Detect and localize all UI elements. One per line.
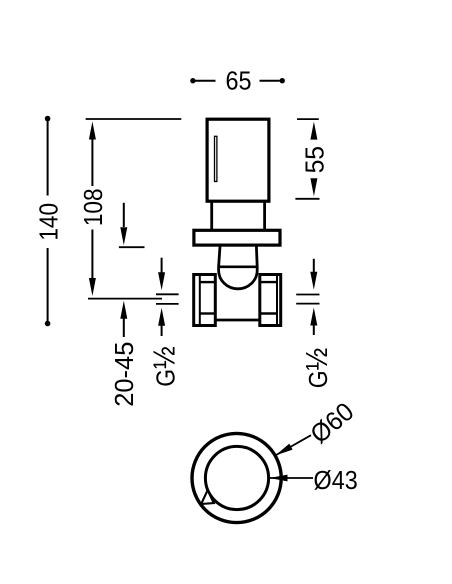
- dimension 20-45 lower line: [123, 318, 125, 337]
- right fitting inner vertical line: [276, 275, 278, 326]
- neck right line: [263, 201, 266, 230]
- dimension 20-45 up arrowhead: [120, 301, 127, 319]
- dimension 140 text: [35, 203, 64, 241]
- svg-text:55: 55: [301, 146, 330, 173]
- left fitting inner vertical line: [199, 275, 201, 326]
- right fitting outer rect: [260, 275, 281, 326]
- dimension G1/2 left lower line: [161, 325, 163, 336]
- dimension 20-45 tick (flange face): [119, 246, 145, 248]
- dimension 108 upper line: [91, 138, 93, 186]
- dimension 140 lower line: [47, 248, 49, 324]
- dimension 55 text: [301, 146, 330, 173]
- dimension 65 right dot: [280, 78, 285, 83]
- dimension 55 bottom extension line: [295, 198, 319, 200]
- dimension 108 text: [79, 188, 108, 226]
- dimension G1/2 right down arrowhead: [310, 272, 317, 290]
- dimension 140 upper line: [47, 119, 49, 196]
- svg-text:65: 65: [225, 67, 251, 95]
- dimension G1/2 left text: [148, 346, 182, 387]
- dimension G1/2 left top tick: [156, 293, 179, 295]
- svg-text:Ø43: Ø43: [314, 467, 358, 495]
- dimension 140 top dot: [45, 116, 51, 122]
- indicator triangle: [201, 490, 214, 504]
- dimension G1/2 left up arrowhead: [158, 308, 165, 326]
- leader line for diameter 60: [275, 435, 311, 455]
- left fitting upper inner line: [200, 281, 216, 283]
- neck left line: [210, 201, 213, 230]
- diameter 43 text: [314, 467, 358, 495]
- leader arrowhead for diameter 60: [275, 444, 292, 456]
- dimension 108 bottom arrowhead: [89, 278, 96, 296]
- dimension G1/2 right upper line: [313, 259, 315, 274]
- flange: [194, 230, 280, 245]
- dimension G1/2 left bottom tick: [156, 303, 179, 305]
- dimension 20-45 down arrowhead: [120, 227, 127, 245]
- dimension 108 top extension line: [86, 118, 182, 120]
- inner circle (bottom view): [205, 446, 268, 509]
- svg-text:20-45: 20-45: [111, 342, 139, 407]
- svg-text:108: 108: [79, 188, 108, 226]
- dimension 55 down arrowhead: [310, 178, 317, 196]
- dimension 20-45 text: [111, 342, 139, 407]
- valve body trapezoid and dome outline: [219, 246, 258, 288]
- dimension G1/2 left down arrowhead: [158, 272, 165, 290]
- dimension G1/2 left upper line: [161, 258, 163, 274]
- right fitting lower inner line: [260, 312, 277, 314]
- dimension G1/2 right bottom tick: [296, 303, 319, 305]
- dimension 65 left dot: [190, 78, 195, 83]
- leader arrowhead for diameter 43: [270, 475, 288, 482]
- dimension G1/2 right top tick: [296, 294, 319, 296]
- handle body: [207, 119, 269, 201]
- handle slot: [215, 136, 217, 181]
- diameter 60 text: [305, 397, 359, 449]
- svg-text:G½: G½: [148, 346, 182, 387]
- dimension 140 bottom dot: [45, 321, 51, 327]
- valve body bottom line: [215, 319, 259, 322]
- svg-text:140: 140: [35, 203, 64, 241]
- wall line (108 bottom extension): [88, 298, 162, 300]
- dimension G1/2 right text: [300, 348, 334, 389]
- outer circle (bottom view): [192, 433, 281, 522]
- dimension 65 left line: [196, 80, 216, 82]
- dimension 55 top extension line: [297, 118, 319, 120]
- dimension 20-45 upper line: [123, 203, 125, 227]
- dimension 108 lower line: [91, 230, 93, 279]
- svg-text:G½: G½: [300, 348, 334, 389]
- leader line for diameter 43: [270, 477, 314, 479]
- dimension 65 right line: [260, 80, 280, 82]
- dimension G1/2 right lower line: [313, 325, 315, 336]
- dome chord line: [219, 265, 258, 268]
- right fitting upper inner line: [260, 281, 277, 283]
- dimension G1/2 right up arrowhead: [310, 308, 317, 326]
- left fitting outer rect: [194, 275, 216, 326]
- dimension 108 top arrowhead: [89, 122, 96, 140]
- left fitting lower inner line: [200, 312, 216, 314]
- dimension 55 up arrowhead: [310, 122, 317, 140]
